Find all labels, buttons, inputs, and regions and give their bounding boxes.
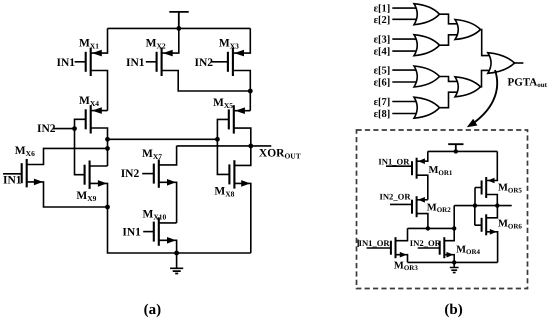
wire: IN1_OR label tick (357, 240, 359, 248)
OR gate 4 (414, 97, 440, 118)
wire: MX6 drain over to node column (27, 148, 108, 164)
node: MX2/MX3 source junction (248, 89, 253, 94)
wire: MX3 drain up to VDD rail (233, 28, 250, 53)
transistor MX10 (NMOS) (153, 222, 155, 242)
node: line B dot MOR2 (426, 226, 430, 230)
wire: MOR4 source to ground line (444, 255, 454, 263)
wire: MOR2 drain lead (417, 199, 428, 201)
transistor MX5 (PMOS) (228, 109, 230, 129)
svg-text:ε[1]: ε[1] (374, 4, 391, 15)
node: MX4 source column dot (105, 137, 110, 142)
wire: line A (454, 205, 512, 207)
node: bottom-left junction dot (105, 205, 110, 210)
wire: junction down to MX5 drain (249, 91, 251, 111)
wire: eps8 input lead (392, 113, 416, 115)
ground symbol (b) (453, 262, 455, 267)
wire: PGTA output lead (514, 62, 523, 64)
svg-text:IN2: IN2 (195, 57, 214, 69)
wire: MOR5 source to line A (486, 195, 497, 206)
transistor MOR3 (NMOS) (390, 241, 392, 255)
wire: MOR2 source to line B (417, 214, 428, 229)
svg-text:ε[5]: ε[5] (374, 66, 391, 77)
transistor MX1 (PMOS) (85, 52, 87, 72)
wire: MX8 source down to ground rail (234, 183, 250, 253)
wire: MOR4 drain to line B (444, 228, 454, 240)
VDD supply symbol (b) (448, 144, 463, 151)
wire: OR2 output to OR5 (439, 35, 458, 45)
wire: MOR1 source to MOR2 drain (417, 175, 428, 200)
svg-text:IN1_OR: IN1_OR (359, 238, 391, 248)
transistor MX6 (NMOS) (21, 163, 23, 183)
wire: eps2 input lead (392, 18, 416, 20)
wire: IN2 lead to MX4/MX9 gates (53, 119, 86, 128)
wire: MX10 drain (159, 222, 177, 224)
wire: OR5 output to OR7 (480, 30, 490, 56)
transistor MOR5 (PMOS) (481, 181, 483, 195)
svg-text:(a): (a) (144, 302, 162, 318)
svg-text:(b): (b) (444, 302, 462, 318)
OR gate 1 (414, 4, 440, 25)
transistor MX8 (NMOS) (228, 164, 230, 184)
svg-text:ε[7]: ε[7] (374, 97, 391, 108)
wire: eps3 input lead (392, 38, 416, 40)
wire: MX3 source down (233, 71, 250, 92)
node: line A source dot (495, 203, 499, 207)
wire: line A to line B vertical (453, 206, 455, 229)
wire: MOR5 drain to rail (486, 151, 497, 180)
wire: line B (408, 227, 455, 229)
OR gate 3 (414, 66, 440, 87)
transistor MOR1 (PMOS) (411, 161, 413, 175)
node: box VDD dot (454, 149, 458, 153)
wire: MX9 drain (90, 165, 108, 167)
wire: MX7 source down to MX10 drain (159, 182, 177, 223)
transistor MX9 (NMOS) (84, 165, 86, 185)
transistor MX3 (PMOS) (227, 52, 229, 72)
svg-text:ε[6]: ε[6] (374, 78, 391, 89)
wire: XOR output line (177, 145, 272, 147)
transistor MX7 (NMOS) (153, 164, 155, 184)
node: gate tie dot (215, 137, 220, 142)
OR gate 6 (455, 77, 481, 97)
wire: internal node line to MX5/MX8 gates (108, 138, 218, 140)
wire: eps1 input lead (392, 7, 416, 9)
OR gate 2 (414, 35, 440, 56)
wire: MX2 source to shared node (162, 71, 251, 92)
svg-text:IN2_OR: IN2_OR (380, 191, 412, 201)
node: MX6 drain node dot (105, 146, 110, 151)
wire: MX2 drain up to VDD dot (162, 28, 179, 53)
wire: MX1 source down to MX4 drain (91, 71, 108, 111)
wire: OR4 output to OR6 (439, 92, 458, 108)
wire: MX5 source to XOR node (234, 128, 251, 146)
wire: OR1 output to OR5 (439, 14, 458, 24)
node: line A gate dot (473, 203, 477, 207)
wire: OR3 output to OR6 (439, 77, 458, 82)
dashed box (b) (357, 130, 528, 289)
transistor MX2 (PMOS) (156, 52, 158, 72)
node: ground dot (452, 260, 456, 264)
wire: VDD rail (108, 27, 251, 29)
wire: OR6 output to OR7 (480, 70, 490, 86)
svg-text:ε[3]: ε[3] (374, 35, 391, 46)
svg-text:IN1_OR: IN1_OR (378, 157, 410, 167)
transistor MOR4 (NMOS) (439, 241, 441, 255)
wire: eps4 input lead (392, 50, 416, 52)
svg-text:IN2_OR: IN2_OR (410, 238, 442, 248)
svg-text:IN2: IN2 (37, 123, 56, 135)
wire: box VDD rail (428, 150, 498, 152)
wire: eps6 input lead (392, 81, 416, 83)
svg-text:ε[2]: ε[2] (374, 15, 391, 26)
wire: MX1 drain to VDD rail (91, 28, 108, 53)
wire: MX10 source to ground rail (159, 240, 177, 253)
node: line B dot right (452, 226, 456, 230)
transistor MX4 (PMOS) (85, 109, 87, 129)
wire: MX8 drain up to XOR node (234, 146, 250, 166)
arrow: PGTA to OR-gate box (472, 70, 498, 125)
svg-text:IN1: IN1 (126, 57, 145, 69)
svg-text:ε[8]: ε[8] (374, 109, 391, 120)
node: XOR output dot (248, 144, 253, 149)
OR gate 7 (final) (488, 53, 515, 74)
wire: MX5 gate down to MX8 gate (217, 119, 229, 174)
wire: ground rail (108, 207, 251, 253)
svg-text:ε[4]: ε[4] (374, 47, 391, 58)
wire: MX9 source down (90, 183, 108, 207)
wire: eps7 input lead (392, 101, 416, 103)
transistor MOR2 (PMOS) (411, 200, 413, 214)
wire: MOR6 source to ground line (486, 232, 497, 263)
transistor MOR6 (NMOS) (481, 218, 483, 232)
node: ground rail dot (174, 251, 179, 256)
svg-text:IN1: IN1 (3, 174, 22, 186)
wire: MX9 gate from IN2 branch (75, 129, 85, 175)
wire: MX6 source to bottom node (27, 182, 108, 207)
wire: MOR3 drain to line B (396, 228, 408, 240)
wire: box ground line (408, 261, 498, 263)
OR gate 5 (455, 20, 481, 40)
ground symbol (a) (176, 253, 178, 268)
node: IN2 gate branch dot (72, 126, 77, 131)
wire: MOR6 drain to line A (486, 206, 497, 218)
svg-text:IN2: IN2 (121, 168, 140, 180)
wire: MX4 source down through node dots to MX9 drain (91, 128, 108, 166)
VDD supply symbol (a) (169, 12, 188, 29)
svg-text:IN1: IN1 (122, 227, 141, 239)
wire: MX7 drain up to XOR line (159, 146, 177, 165)
wire: eps5 input lead (392, 69, 416, 71)
wire: MOR3 source to ground line (396, 255, 408, 263)
wire: MOR1 drain to rail (417, 151, 428, 161)
node: VDD junction dot (176, 26, 181, 31)
svg-text:IN1: IN1 (57, 57, 76, 69)
